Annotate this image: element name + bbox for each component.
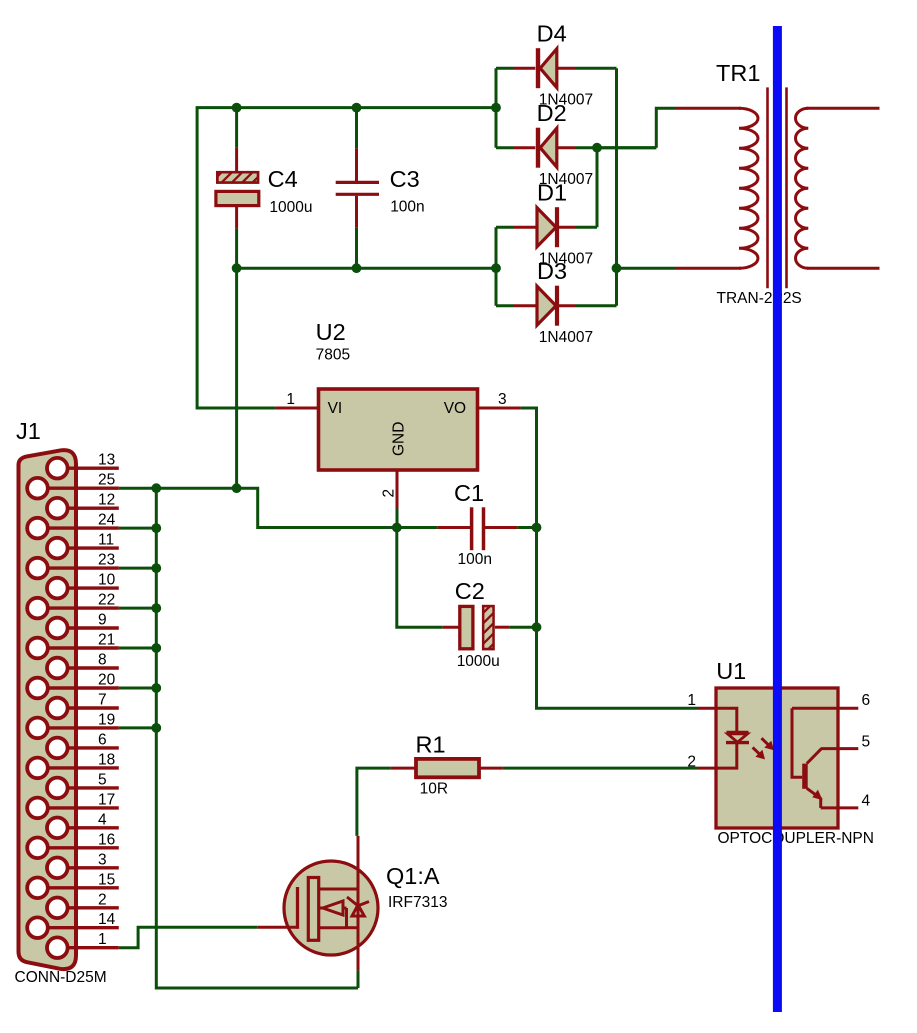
svg-text:9: 9	[98, 612, 107, 629]
svg-text:2: 2	[381, 489, 398, 498]
label C4 reference	[268, 166, 298, 192]
svg-text:24: 24	[98, 512, 116, 529]
svg-text:D3: D3	[537, 258, 567, 284]
transistor Q1 internal mosfet symbol	[298, 862, 370, 954]
svg-text:C3: C3	[390, 166, 420, 192]
svg-text:4: 4	[98, 811, 107, 828]
svg-text:10R: 10R	[420, 781, 448, 798]
wire C2 right	[509, 626, 536, 629]
svg-text:7805: 7805	[316, 347, 350, 364]
wire J1 pin 19 to bus	[119, 726, 157, 729]
junction node GND/C1	[392, 523, 402, 533]
svg-text:100n: 100n	[390, 199, 424, 216]
svg-text:7: 7	[98, 691, 107, 708]
blue page divider line	[773, 26, 782, 1012]
wire C4 top	[235, 108, 238, 148]
label U2 pin 1	[286, 391, 295, 408]
svg-text:D4: D4	[537, 20, 567, 46]
U1 pin1 stub	[698, 707, 716, 710]
wire VO rail down to U1 pin1	[521, 408, 698, 708]
label R1 value 10R	[420, 781, 448, 798]
svg-text:TR1: TR1	[716, 60, 760, 86]
svg-text:GND: GND	[391, 422, 408, 456]
junction node C3/rail-	[352, 263, 362, 273]
junction node bridge AC2	[612, 263, 622, 273]
wire bridge left column upper	[495, 68, 498, 148]
svg-text:5: 5	[862, 734, 871, 751]
wire TR1 primary top riser	[656, 108, 676, 147]
label U2 value 7805	[316, 347, 350, 364]
junction node bridge DC+	[491, 103, 501, 113]
svg-text:20: 20	[98, 671, 116, 688]
svg-text:100n: 100n	[458, 551, 492, 568]
svg-text:3: 3	[498, 391, 507, 408]
svg-text:21: 21	[98, 632, 115, 649]
svg-text:14: 14	[98, 911, 116, 928]
wire J1 pin 21 to bus	[119, 647, 157, 650]
wire D4 row left	[496, 67, 514, 70]
junction node bus pin25	[151, 483, 161, 493]
wire GND down to C2 left	[397, 528, 443, 628]
svg-text:IRF7313: IRF7313	[388, 894, 447, 911]
wire TR1 primary top feed	[597, 146, 656, 149]
label D2	[537, 100, 567, 126]
capacitor C2 (electrolytic)	[443, 593, 510, 664]
wire J1 pin 23 to bus	[119, 567, 157, 570]
label U1 pin 5	[862, 734, 871, 751]
label C1 reference	[454, 480, 484, 506]
svg-text:VI: VI	[328, 400, 343, 417]
label U2 pin name GND	[391, 422, 408, 456]
svg-text:OPTOCOUPLER-NPN: OPTOCOUPLER-NPN	[718, 830, 874, 847]
junction node bus pin24	[151, 523, 161, 533]
resistor R1	[391, 759, 503, 777]
label U2 reference	[316, 319, 346, 345]
wire C4 bottom / drop to GND net	[235, 229, 238, 489]
label U2 pin name VO	[444, 400, 466, 417]
svg-text:U1: U1	[716, 658, 746, 684]
svg-text:23: 23	[98, 552, 115, 569]
wire R1 right to U1 pin2	[503, 767, 698, 770]
junction node +5V/C2	[532, 622, 542, 632]
wire C3 bottom	[355, 228, 358, 268]
svg-text:6: 6	[98, 731, 107, 748]
transformer TR1 secondary winding	[796, 108, 880, 268]
wire J1 pin1 to Q1 gate	[119, 927, 257, 947]
U1 light arrows	[753, 738, 774, 759]
U1 pin2 stub	[698, 767, 716, 770]
label U2 pin 2	[381, 489, 398, 498]
svg-text:5: 5	[98, 771, 107, 788]
junction node bus pin23	[151, 563, 161, 573]
wire D2 row left	[496, 146, 514, 149]
svg-text:11: 11	[98, 532, 114, 549]
wire D1 row left	[496, 226, 514, 229]
transistor Q1 body	[257, 836, 378, 971]
label C2 value 1000u	[457, 653, 500, 670]
junction node C4/rail+	[232, 103, 242, 113]
wire bridge- rail	[237, 267, 496, 270]
diode D1	[514, 207, 576, 247]
wire R1 left to Q1 drain	[357, 768, 391, 836]
label D2 value 1N4007	[539, 171, 593, 188]
svg-text:16: 16	[98, 831, 115, 848]
junction node GND drop	[232, 483, 242, 493]
junction node bridge DC-	[491, 263, 501, 273]
svg-text:D2: D2	[537, 100, 567, 126]
svg-text:22: 22	[98, 592, 115, 609]
label R1 reference	[416, 732, 446, 758]
wire J1 pin 20 to bus	[119, 687, 157, 690]
op-amp U2 regulator 7805 body	[276, 389, 521, 509]
wire C1 right	[517, 526, 536, 529]
wire bridge+ rail to U2 VI	[197, 108, 496, 408]
label D4 value 1N4007	[539, 92, 593, 109]
label C4 value 1000u	[269, 199, 312, 216]
connector J1 body	[19, 450, 77, 969]
wire D3 row left	[496, 304, 514, 307]
wire GND trunk pin25 to regulator	[119, 488, 397, 527]
svg-text:C1: C1	[454, 480, 484, 506]
svg-text:1000u: 1000u	[269, 199, 312, 216]
svg-text:1: 1	[687, 692, 696, 709]
svg-text:CONN-D25M: CONN-D25M	[15, 969, 107, 986]
svg-text:R1: R1	[416, 732, 446, 758]
wire U2 pin2 to GND node	[396, 509, 399, 528]
label C3 value 100n	[390, 199, 424, 216]
svg-text:C4: C4	[268, 166, 298, 192]
svg-text:17: 17	[98, 791, 115, 808]
svg-text:8: 8	[98, 652, 107, 669]
diode D2	[514, 128, 576, 168]
wire D2 row right	[576, 146, 657, 149]
svg-text:TRAN-2P2S: TRAN-2P2S	[717, 290, 802, 307]
junction node C3/rail+	[352, 103, 362, 113]
diode D4	[514, 48, 576, 88]
svg-text:6: 6	[862, 692, 871, 709]
junction node bus pin21	[151, 643, 161, 653]
wire D4 row right	[576, 67, 617, 70]
svg-text:12: 12	[98, 492, 115, 509]
label C2 reference	[455, 578, 485, 604]
capacitor C4 (electrolytic)	[213, 148, 270, 229]
svg-text:18: 18	[98, 751, 115, 768]
transformer TR1 core	[768, 87, 787, 288]
wire D3 row right	[576, 304, 617, 307]
svg-text:25: 25	[98, 472, 115, 489]
label D1	[537, 179, 567, 205]
svg-text:1N4007: 1N4007	[539, 329, 593, 346]
label TR1 reference	[716, 60, 760, 86]
label D3	[537, 258, 567, 284]
label U1 pin 1	[687, 692, 696, 709]
wire J1 ground bus	[156, 488, 358, 988]
junction node bus pin22	[151, 603, 161, 613]
svg-text:C2: C2	[455, 578, 485, 604]
svg-text:VO: VO	[444, 400, 466, 417]
label Q1 value IRF7313	[388, 894, 447, 911]
svg-text:13: 13	[98, 452, 115, 469]
label J1 value CONN-D25M	[15, 969, 107, 986]
U1 internal phototransistor	[792, 708, 858, 808]
wire D1 row right	[576, 226, 598, 229]
label C3 reference	[390, 166, 420, 192]
svg-text:2: 2	[98, 891, 107, 908]
svg-text:10: 10	[98, 572, 116, 589]
label U2 pin name VI	[328, 400, 343, 417]
svg-text:15: 15	[98, 871, 115, 888]
wire J1 pin 24 to bus	[119, 527, 157, 530]
svg-text:3: 3	[98, 851, 107, 868]
svg-text:2: 2	[687, 754, 696, 771]
capacitor C3	[336, 148, 379, 228]
svg-text:Q1:A: Q1:A	[386, 863, 440, 889]
op-amp U1 optocoupler body	[716, 688, 838, 828]
transformer TR1 primary winding	[676, 108, 758, 268]
label U1 pin 6	[862, 692, 871, 709]
label D3 value 1N4007	[539, 329, 593, 346]
label U1 reference	[716, 658, 746, 684]
label U1 value OPTOCOUPLER-NPN	[718, 830, 874, 847]
label TR1 value TRAN-2P2S	[717, 290, 802, 307]
svg-text:D1: D1	[537, 179, 567, 205]
connector J1 pins 13..1 with pads and numbers	[27, 452, 119, 958]
wire C3 top	[355, 108, 358, 149]
junction node bus pin20	[151, 683, 161, 693]
junction node +5V/C1	[532, 523, 542, 533]
wire TR1 primary bottom feed	[617, 267, 677, 270]
wire bridge right column	[615, 68, 618, 306]
junction node bus pin19	[151, 723, 161, 733]
svg-text:1000u: 1000u	[457, 653, 500, 670]
label J1 reference	[16, 418, 41, 444]
svg-text:4: 4	[862, 793, 871, 810]
capacitor C1	[438, 507, 518, 550]
label D4	[537, 20, 567, 46]
svg-text:U2: U2	[316, 319, 346, 345]
junction node C4/rail-	[232, 263, 242, 273]
wire C1 left	[397, 526, 438, 529]
wire D2-D1 column	[596, 148, 599, 228]
svg-text:J1: J1	[16, 418, 41, 444]
label Q1 reference	[386, 863, 440, 889]
wire bridge left column lower	[495, 227, 498, 306]
svg-text:1: 1	[98, 931, 107, 948]
wire J1 pin 22 to bus	[119, 607, 157, 610]
label C1 value 100n	[458, 551, 492, 568]
junction node bridge AC1	[592, 143, 602, 153]
label U1 pin 2	[687, 754, 696, 771]
svg-text:1: 1	[286, 391, 295, 408]
U1 internal LED	[716, 708, 749, 768]
wire Q1 source to ground bus	[357, 970, 360, 988]
label D1 value 1N4007	[539, 251, 593, 268]
diode D3	[514, 286, 576, 326]
label U2 pin 3	[498, 391, 507, 408]
svg-text:19: 19	[98, 711, 115, 728]
label U1 pin 4	[862, 793, 871, 810]
